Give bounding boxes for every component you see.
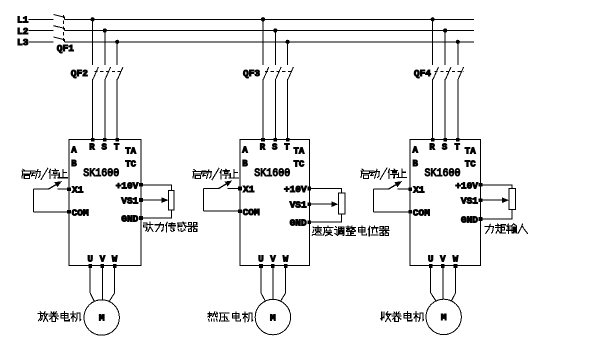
junction node branch at x=117 on L3 [115,40,119,44]
U2 terminal COM [238,209,242,213]
wire branch vertical [444,31,446,65]
wire U2-V to motor [272,265,274,300]
wire branch vertical [457,42,459,65]
inverter U3 SK1600 box [410,139,480,265]
switch S1 start/stop wiring [34,188,49,190]
label: rewind motor (收卷电机) [381,312,424,322]
potentiometer RP3 body [509,189,515,210]
junction node branch at x=93 on L1 [91,17,95,21]
svg-text:V: V [100,254,106,264]
U2 terminal X1 [238,187,242,191]
U1 terminal S [103,138,107,142]
junction node branch at x=105 on L2 [103,28,107,32]
U2 terminal S [274,138,278,142]
svg-text:VS1: VS1 [461,196,478,207]
svg-text:R: R [429,143,435,153]
svg-text:SK1600: SK1600 [254,168,290,180]
svg-text:U: U [428,254,433,264]
svg-text:B: B [413,159,419,169]
junction node branch at x=288 on L3 [286,40,290,44]
svg-text:COM: COM [413,208,430,219]
potentiometer RP2 body [339,193,345,214]
svg-text:A: A [413,145,419,155]
svg-text:QF3: QF3 [243,68,260,79]
svg-text:B: B [71,159,77,169]
svg-text:SK1600: SK1600 [83,168,119,180]
svg-text:QF2: QF2 [71,68,88,79]
svg-text:B: B [242,159,248,169]
junction node branch at x=275 on L2 [273,28,277,32]
svg-text:TC: TC [125,160,136,170]
svg-text:QF1: QF1 [57,43,74,54]
inverter U2 SK1600 box [240,139,309,265]
svg-text:R: R [260,143,266,153]
U3 terminal GND [479,217,483,221]
svg-text:S: S [272,143,278,153]
wire branch vertical [104,31,106,65]
svg-text:A: A [242,145,248,155]
svg-text:SK1600: SK1600 [425,168,461,180]
junction node branch at x=445 on L2 [443,28,447,32]
wire GND to RP2 bottom [309,214,341,222]
motor M1 [84,300,119,335]
U1 terminal VS1 [139,198,143,202]
wire +10V to RP3 top [481,185,513,189]
svg-text:T: T [284,143,290,153]
U2 terminal GND [307,220,311,224]
wire branch vertical [287,42,289,65]
wire VS1 to RP3 wiper (arrow) [481,199,506,201]
svg-text:W: W [112,254,118,264]
U1 terminal X1 [67,187,71,191]
U2 terminal +10V [307,187,311,191]
motor M3 [426,299,461,334]
U1 terminal R [91,138,95,142]
U3 terminal X1 [408,187,412,191]
wire U3-U to motor [431,265,437,301]
wire L3 bus [28,41,53,43]
svg-text:X1: X1 [72,185,84,196]
switch S2 start/stop wiring [204,188,219,190]
svg-text:X1: X1 [243,184,255,195]
svg-text:VS1: VS1 [290,200,307,211]
motor M2 [255,299,290,334]
U3 terminal S [443,138,447,142]
label: start/stop (启动/停止) for U1 [22,168,67,179]
U2 terminal W [284,264,288,268]
U3 terminal V [441,264,445,268]
svg-text:+10V: +10V [116,180,139,191]
wire U3-W to motor [451,265,456,301]
wire U2-U to motor [261,265,266,301]
svg-text:R: R [89,143,95,153]
svg-text:TC: TC [465,160,476,170]
label: speed adjust potentiometer (速度调整电位器) [312,226,389,236]
U2 terminal U [259,264,263,268]
svg-text:COM: COM [72,208,89,219]
U1 terminal T [115,138,119,142]
U1 terminal V [101,264,105,268]
circuit breaker QF4 (3-pole) [433,67,438,79]
U1 terminal +10V [139,183,143,187]
label: start/stop (启动/停止) for U2 [193,168,238,179]
svg-text:U: U [258,254,263,264]
U3 terminal R [431,138,435,142]
wire VS1 to RP1 wiper (arrow) [141,199,165,201]
wire U3-V to motor [442,265,444,299]
switch S3 start/stop wiring [374,188,389,190]
svg-text:L1: L1 [17,15,29,26]
svg-text:+10V: +10V [455,180,478,191]
wire branch vertical [432,19,434,65]
potentiometer RP1 body [169,190,175,210]
svg-text:GND: GND [290,218,307,229]
svg-text:TA: TA [125,146,136,156]
wire +10V to RP1 top [141,185,171,191]
U2 terminal T [286,138,290,142]
U3 terminal +10V [479,183,483,187]
wire branch vertical [92,19,94,65]
label: unwind motor (放卷电机) [38,312,81,322]
svg-text:QF4: QF4 [414,68,431,79]
label: start/stop (启动/停止) for U3 [361,168,406,179]
U1 terminal U [88,264,92,268]
svg-text:M: M [270,312,276,323]
svg-text:S: S [442,143,448,153]
wire branch vertical [274,31,276,65]
U1 terminal COM [67,210,71,214]
junction node branch at x=263 on L1 [261,17,265,21]
switch S2 blade [219,182,230,189]
circuit breaker QF1 (3-pole) [54,15,65,20]
wire U1-U to motor [90,265,94,301]
switch S1 blade [48,183,59,190]
wire branch vertical [116,42,118,65]
wire L2 bus [28,30,53,32]
svg-text:L3: L3 [17,37,29,48]
svg-text:A: A [71,145,77,155]
label: heat-press motor (热压电机) [208,312,253,322]
wire branch vertical [262,19,264,65]
U3 terminal W [454,264,458,268]
svg-text:V: V [440,254,446,264]
svg-text:S: S [101,143,107,153]
U3 terminal T [456,138,460,142]
wire L1 bus [28,18,53,20]
svg-text:VS1: VS1 [121,196,138,207]
wire GND to RP3 bottom [481,210,513,219]
wire U2-W to motor [280,265,285,301]
wire +10V to RP2 top [309,189,341,193]
svg-text:M: M [441,312,447,323]
circuit breaker QF3 (3-pole) [263,67,268,79]
U3 terminal VS1 [479,198,483,202]
svg-text:W: W [453,254,459,264]
svg-text:U: U [87,254,92,264]
U1 terminal GND [139,216,143,220]
U3 terminal COM [408,210,412,214]
U3 terminal U [429,264,433,268]
label: torque input (力矩输入) [485,224,528,234]
svg-text:T: T [454,143,460,153]
svg-text:W: W [283,254,289,264]
svg-text:T: T [114,143,120,153]
svg-text:L2: L2 [17,26,29,37]
inverter U1 SK1600 box [69,139,141,265]
switch S3 blade [388,183,399,190]
svg-text:TC: TC [294,160,305,170]
U2 terminal V [271,264,275,268]
circuit breaker QF2 (3-pole) [93,67,98,79]
svg-text:TA: TA [465,146,476,156]
svg-text:M: M [99,313,105,324]
U2 terminal VS1 [307,202,311,206]
svg-text:+10V: +10V [284,184,307,195]
U2 terminal R [261,138,265,142]
svg-text:GND: GND [121,213,138,224]
junction node branch at x=458 on L3 [456,40,460,44]
svg-text:TA: TA [294,146,305,156]
junction node branch at x=433 on L1 [431,17,435,21]
svg-text:GND: GND [461,215,478,226]
svg-text:X1: X1 [413,185,425,196]
wire VS1 to RP2 wiper (arrow) [309,203,335,205]
wire U1-V to motor [101,265,103,300]
svg-text:V: V [270,254,276,264]
svg-text:COM: COM [243,207,260,218]
wire U1-W to motor [109,265,115,301]
wire GND to RP1 bottom [141,210,171,218]
U1 terminal W [113,264,117,268]
label: tension sensor (张力传感器) [143,222,197,232]
